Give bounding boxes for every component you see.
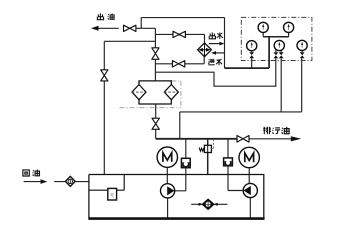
gauge PG1 (258, 22, 268, 32)
wire left branch horizontal (104, 40, 155, 42)
compartment line (89, 175, 124, 191)
label hui-you (return oil) (23, 169, 40, 176)
gauge valve small G3 (249, 52, 254, 58)
gauge valve small G4 right (279, 52, 284, 58)
wire pump discharge manifold (156, 138, 237, 140)
motor M2 (239, 147, 259, 167)
wire G4 right stem (280, 58, 282, 112)
wire main riser upper (154, 28, 156, 48)
valve V1 oil-out (bowtie) (124, 25, 136, 31)
label pai-wu-you (drain oil) (263, 127, 289, 134)
arrow drain oil (291, 136, 301, 141)
wire drain line after valve (249, 138, 292, 140)
filter F1 duplex assembly (120, 81, 181, 108)
wire oil-out valve to riser (136, 27, 156, 29)
pump P2 (243, 183, 257, 197)
valve V4 drain (237, 136, 249, 143)
suction strainer S1 (199, 199, 218, 210)
gauge PG3 (247, 41, 257, 51)
wire damper2 drop (228, 139, 243, 191)
wire mid branch to gauge (155, 58, 275, 86)
wire water horizontal (225, 67, 270, 69)
label jin-shui (water in) (208, 59, 222, 65)
valve V6 left vertical (101, 70, 108, 81)
pump P1 (161, 184, 175, 198)
wire cooler bottom row (155, 57, 204, 64)
gauge PG2 (284, 22, 294, 32)
wire filter drop (155, 104, 157, 139)
wire water riser right (268, 36, 270, 68)
arrow water-out (209, 43, 220, 45)
cooler HE1 (198, 43, 212, 57)
filter element right (164, 85, 178, 100)
valve V2 cooler top (173, 31, 185, 37)
wire return-oil segs (24, 181, 89, 183)
level gauge LG1 (108, 188, 117, 200)
label chu-shui (water out) (209, 32, 223, 38)
wire oil-out shaft (98, 27, 119, 29)
filter element left (132, 85, 146, 100)
filter body box (139, 81, 171, 104)
gauge panel dashed border (241, 17, 312, 60)
valve V3 cooler bottom (172, 61, 184, 67)
gauge valve small G4 left (274, 52, 279, 58)
wire left vertical upper (103, 41, 105, 70)
wire gauge G1 stem (262, 32, 264, 36)
wire riser to top line (140, 18, 142, 29)
wire water drop vertical (224, 18, 226, 69)
tank (88, 175, 264, 219)
wire motor2 shaft (248, 168, 250, 184)
wire gauge G2 stem (288, 32, 290, 36)
arrow return-oil (41, 179, 48, 184)
wire relief drop (207, 139, 209, 175)
motor M1 (157, 147, 177, 167)
wire long manifold (180, 58, 302, 138)
wire pump2 suction (249, 198, 251, 218)
gauge PG4 (274, 40, 284, 50)
filter frame dash-dot (120, 81, 181, 108)
valve V7 filter drop vertical (152, 118, 159, 129)
wire G4 stems (276, 49, 281, 52)
relief valve RV1 (199, 140, 213, 153)
wire top line (141, 17, 224, 19)
damper D2 (224, 158, 233, 166)
arrow water-in (215, 52, 224, 54)
wire damper1 drop (175, 139, 186, 191)
wire left vertical lower (103, 81, 105, 175)
wire main riser lower (154, 59, 156, 81)
label chu-you (oil out) (97, 13, 114, 19)
wire G5 stem (301, 50, 303, 52)
wire motor1 shaft (166, 168, 168, 184)
wire gauge manifold G1-G2 (263, 36, 288, 38)
wire strainer side lines (191, 203, 227, 205)
valve V5 main riser vertical (152, 48, 159, 60)
gauge PG5 (297, 40, 307, 50)
damper D1 (181, 158, 190, 167)
return filter F2 (65, 176, 75, 186)
gauge valve small G5 (300, 52, 305, 58)
wire pump1 suction (167, 198, 169, 218)
wire cooler top row (155, 34, 204, 43)
arrow oil-out (91, 26, 99, 31)
wire G3 stem (251, 51, 253, 69)
